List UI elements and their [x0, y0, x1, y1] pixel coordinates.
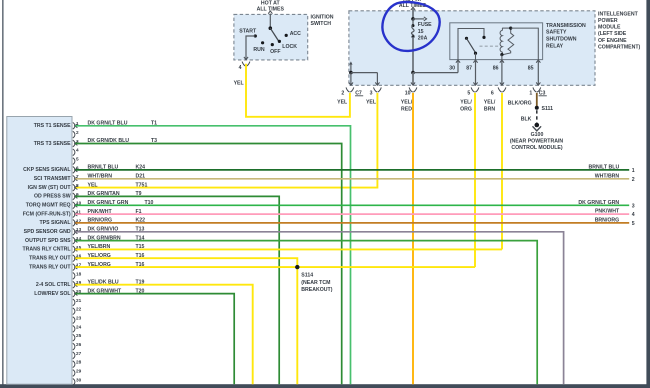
svg-text:YEL/ORG: YEL/ORG [88, 262, 111, 268]
wire T16 YEL/ORG (pin 16) [75, 256, 298, 267]
wire T20 DK GRN/WHT (pin 20) [75, 292, 235, 385]
svg-text:INTELLENGENT: INTELLENGENT [598, 11, 639, 17]
svg-text:K22: K22 [136, 218, 146, 224]
svg-text:20A: 20A [418, 36, 428, 42]
IPM pin 3 [370, 87, 382, 96]
svg-text:SWITCH: SWITCH [311, 21, 332, 27]
svg-text:YEL: YEL [88, 182, 99, 188]
svg-text:SHUTDOWN: SHUTDOWN [546, 37, 577, 43]
svg-text:T15: T15 [136, 244, 145, 250]
relay pin 86 [493, 60, 504, 85]
svg-text:LOCK: LOCK [282, 44, 297, 50]
svg-text:TRANSMISSION: TRANSMISSION [546, 23, 586, 29]
svg-text:G100: G100 [531, 132, 544, 138]
svg-text:YEL/: YEL/ [401, 100, 413, 106]
svg-text:K24: K24 [136, 165, 146, 171]
wire: coil bottom to relay pin 86 [501, 55, 503, 60]
IPM pin 5 [467, 87, 478, 96]
svg-text:LOW/REV SOL: LOW/REV SOL [34, 291, 71, 297]
contact RUN [253, 41, 264, 53]
node: pin 2 junction [349, 71, 353, 75]
svg-text:RED: RED [401, 107, 412, 113]
svg-text:YEL: YEL [337, 100, 348, 106]
relay mechanical link (dashed) [480, 45, 499, 47]
wire: battery feed into ignition switch [268, 11, 272, 28]
svg-text:START: START [239, 29, 257, 35]
wire: fuse output down [412, 37, 414, 73]
node: right exit 1 (BRN/LT BLU) [588, 164, 634, 174]
relay internal: pin 30 feed path [458, 29, 484, 60]
svg-text:BRN/ORG: BRN/ORG [595, 217, 620, 223]
svg-text:2-4 SOL CTRL: 2-4 SOL CTRL [36, 282, 72, 288]
label: DK GRN/VIO T13 [88, 227, 145, 233]
contact OFF [270, 43, 280, 55]
label: IGNITION SWITCH [311, 15, 334, 27]
wire T15 YEL/BRN (pin 15) [75, 248, 502, 252]
node: relay fixed contact [482, 36, 485, 39]
relay coil resistor (zigzag) [503, 28, 514, 54]
svg-text:FCM (OFF-RUN-ST): FCM (OFF-RUN-ST) [23, 211, 71, 217]
svg-text:ACC: ACC [290, 31, 301, 37]
IPM pin 10 [405, 87, 417, 96]
svg-text:BRN/LT BLU: BRN/LT BLU [588, 164, 619, 170]
wire: battery feed to fuse [411, 7, 415, 19]
svg-text:T751: T751 [136, 182, 148, 188]
svg-text:DK GRN/WHT: DK GRN/WHT [88, 288, 123, 294]
svg-text:WHT/BRN: WHT/BRN [595, 173, 620, 179]
svg-text:T13: T13 [136, 227, 145, 233]
svg-text:YEL/ORG: YEL/ORG [88, 253, 111, 259]
ground G100 [533, 123, 542, 131]
svg-text:DK GRN/TAN: DK GRN/TAN [88, 191, 120, 197]
label: DK GRN/DK BLU T3 [88, 138, 158, 144]
label: INTELLENGENT POWER MODULE [598, 11, 641, 50]
svg-text:HOT AT: HOT AT [261, 0, 281, 6]
svg-text:2: 2 [76, 130, 79, 135]
label: YEL T751 [88, 182, 148, 188]
svg-text:87: 87 [466, 66, 472, 72]
svg-text:TORQ MGMT REQ: TORQ MGMT REQ [26, 203, 71, 209]
wire F1 PNK/WHT (pin 11) [75, 212, 630, 216]
svg-text:DK GRN/BRN: DK GRN/BRN [88, 235, 121, 241]
wire T1 DK GRN/LT BLU (pin 1) [75, 124, 351, 384]
svg-text:5: 5 [632, 221, 635, 227]
svg-text:T16: T16 [136, 253, 145, 259]
svg-text:TRANS RLY OUT: TRANS RLY OUT [29, 256, 71, 262]
svg-text:86: 86 [493, 66, 499, 72]
wire: fuse output to IPM pin 10 [411, 73, 415, 86]
svg-text:24: 24 [76, 324, 82, 329]
label: TRANSMISSION SAFETY SHUTDOWN RELAY [546, 23, 586, 50]
wire K22 BRN/ORG (pin 12) [75, 221, 630, 225]
wire BLK/ORG: IPM pin 1 to splice S111 [536, 93, 538, 106]
contact LOCK [278, 40, 297, 50]
svg-text:TRANS RLY CNTRL: TRANS RLY CNTRL [22, 247, 71, 253]
svg-text:3: 3 [370, 91, 373, 97]
svg-text:28: 28 [76, 360, 82, 365]
svg-text:SAFETY: SAFETY [546, 30, 567, 36]
svg-text:BRN: BRN [484, 107, 495, 113]
wire YEL/BRN: IPM pin 6 to row 15 [501, 93, 503, 250]
svg-text:27: 27 [76, 351, 82, 356]
label: BRN/LT BLU K24 [88, 165, 146, 171]
svg-text:DK GRN/VIO: DK GRN/VIO [88, 227, 119, 233]
node: right exit 2 (WHT/BRN) [595, 173, 635, 183]
svg-text:(NEAR POWERTRAIN: (NEAR POWERTRAIN [510, 139, 564, 145]
svg-text:YEL/: YEL/ [484, 100, 496, 106]
svg-text:OUTPUT SPD SNS: OUTPUT SPD SNS [25, 238, 71, 244]
wire: coil top to relay pin 85 [511, 28, 539, 59]
svg-text:30: 30 [449, 66, 455, 72]
svg-text:T9: T9 [136, 191, 142, 197]
svg-text:5: 5 [467, 91, 470, 97]
wire: branch feed arrow to other circuits [413, 17, 427, 21]
svg-text:5: 5 [76, 157, 79, 162]
svg-text:DK GRN/DK BLU: DK GRN/DK BLU [88, 138, 130, 144]
svg-text:TRANS RLY OUT: TRANS RLY OUT [29, 264, 71, 270]
svg-text:SCI TRANSMIT: SCI TRANSMIT [34, 176, 72, 182]
label: YEL/ORG T16 [88, 262, 145, 268]
label: YEL/BRN T15 [88, 244, 145, 250]
svg-text:ORG: ORG [460, 107, 472, 113]
svg-text:OFF: OFF [270, 49, 280, 55]
svg-text:T1: T1 [151, 121, 157, 127]
wire: junction to pin 3 [351, 72, 378, 74]
svg-text:T14: T14 [136, 235, 145, 241]
svg-text:T20: T20 [136, 288, 145, 294]
wire: down to IPM pin 3 [375, 73, 379, 86]
svg-text:29: 29 [76, 368, 82, 373]
wire K24 BRN/LT BLU (pin 6) [75, 168, 630, 172]
svg-text:3: 3 [632, 203, 635, 209]
label: YEL/RED [401, 100, 413, 113]
svg-text:CONTROL MODULE): CONTROL MODULE) [511, 145, 562, 151]
svg-text:T3: T3 [151, 138, 157, 144]
svg-text:RELAY: RELAY [546, 44, 564, 50]
svg-text:26: 26 [76, 342, 82, 347]
fuse FUSE 15 20A [411, 19, 414, 38]
svg-text:PNK/WHT: PNK/WHT [88, 209, 113, 215]
label: YEL/DK BLU T19 [88, 279, 145, 285]
svg-text:CKP SENS SIGNAL: CKP SENS SIGNAL [23, 167, 71, 173]
svg-text:YEL: YEL [234, 81, 245, 87]
svg-text:23: 23 [76, 316, 82, 321]
svg-text:TPS SIGNAL: TPS SIGNAL [39, 220, 71, 226]
svg-text:S114: S114 [301, 273, 313, 279]
svg-text:8: 8 [76, 183, 79, 188]
node: ignition switch pivot [269, 26, 273, 30]
wire: fuse output to relay pin 30 [413, 72, 458, 74]
svg-text:21: 21 [76, 298, 82, 303]
svg-text:OD PRESS SW: OD PRESS SW [34, 194, 71, 200]
IPM pin 1 (C3) [529, 87, 546, 96]
svg-text:T16: T16 [136, 262, 145, 268]
ignition switch lever [270, 28, 278, 41]
svg-text:S111: S111 [542, 106, 554, 112]
svg-text:85: 85 [528, 66, 534, 72]
svg-text:BLK: BLK [521, 117, 532, 123]
label: DK GRN/LT GRN T10 [88, 200, 154, 206]
wire: START contact to ignition pin 4 [244, 36, 255, 60]
svg-text:BRN/ORG: BRN/ORG [88, 218, 113, 224]
svg-text:DK GRN/LT GRN: DK GRN/LT GRN [88, 200, 129, 206]
node: fuse input junction [411, 17, 415, 21]
ignition switch module box [234, 14, 308, 60]
relay pin 87 [466, 60, 477, 85]
relay coil [500, 28, 511, 54]
IPM pin 2 (C7) [341, 87, 363, 96]
label: WHT/BRN D21 [88, 174, 146, 180]
module: Intelligent Power Module box [349, 11, 595, 86]
wire T19 YEL/DK BLU (pin 19) [75, 283, 253, 384]
svg-text:15: 15 [418, 29, 424, 35]
pin 4 (ignition switch output) [239, 62, 250, 72]
label: HOT AT ALL TIMES (ignition feed) [257, 0, 285, 12]
svg-text:DK GRN/LT BLU: DK GRN/LT BLU [88, 121, 128, 127]
wire YEL/RED: IPM pin 10 down off page [412, 93, 414, 384]
svg-text:2: 2 [341, 91, 344, 97]
node: coil bottom junction [500, 53, 503, 56]
svg-text:PNK/WHT: PNK/WHT [595, 209, 620, 215]
node: fuse output junction to relay [411, 71, 415, 75]
wire T9 DK GRN/TAN (pin 9) [75, 195, 280, 385]
relay pin 30 [449, 60, 460, 73]
relay: transmission safety shutdown relay box [450, 23, 543, 60]
node: right exit 5 (BRN/ORG) [595, 217, 635, 227]
svg-text:2: 2 [632, 177, 635, 183]
label: G100 (NEAR POWERTRAIN CONTROL MODULE) [510, 132, 564, 151]
svg-text:IGN SW (ST) OUT: IGN SW (ST) OUT [28, 185, 72, 191]
wire: IPM internal feed arrow (pin 2 source) [349, 61, 352, 72]
wire T751 YEL (pin 8) [75, 186, 78, 190]
svg-text:4: 4 [239, 65, 242, 71]
label: YEL/ORG [460, 100, 472, 113]
module: TCM connector strip (left) [7, 117, 72, 385]
svg-text:10: 10 [405, 91, 411, 97]
IPM pin 6 [491, 87, 506, 96]
svg-text:F1: F1 [136, 209, 142, 215]
splice S111 [535, 106, 553, 112]
svg-text:(NEAR TCM: (NEAR TCM [301, 280, 330, 286]
wire D21 WHT/BRN (pin 7) [75, 177, 630, 181]
relay pin 85 [528, 60, 541, 85]
svg-text:IGNITION: IGNITION [311, 15, 334, 21]
svg-text:WHT/BRN: WHT/BRN [88, 174, 113, 180]
svg-text:DK GRN/LT GRN: DK GRN/LT GRN [578, 200, 619, 206]
relay switch contact (blade) [465, 37, 477, 60]
svg-text:TRS T1 SENSE: TRS T1 SENSE [34, 123, 71, 129]
node: right exit 3 (DK GRN/LT GRN) [578, 200, 634, 210]
svg-text:BLK/ORG: BLK/ORG [508, 101, 532, 107]
wire T3 DK GRN/DK BLU (pin 3) [75, 142, 342, 385]
annotation: hand-drawn blue circle around fuse [382, 2, 439, 51]
svg-text:BREAKOUT): BREAKOUT) [301, 287, 332, 293]
svg-text:YEL/: YEL/ [460, 100, 472, 106]
label: HOT AT ALL TIMES (fuse feed, clipped at top) [399, 0, 427, 9]
wire YEL T751: IPM pin 3 to TCM pin 8 [75, 93, 377, 188]
svg-text:MODULE: MODULE [598, 25, 621, 31]
svg-text:YEL: YEL [366, 100, 377, 106]
wire BLK: S111 to ground [521, 110, 537, 123]
svg-text:TRS T3 SENSE: TRS T3 SENSE [34, 141, 71, 147]
contact START [239, 29, 257, 38]
svg-text:COMPARTMENT): COMPARTMENT) [598, 44, 641, 50]
node: coil top junction [509, 27, 512, 30]
svg-text:1: 1 [632, 168, 635, 174]
TCM connector pins 1-30 (brackets) [73, 121, 82, 385]
svg-text:T10: T10 [145, 200, 154, 206]
svg-text:T19: T19 [136, 279, 145, 285]
svg-text:OF ENGINE: OF ENGINE [598, 38, 627, 44]
label: DK GRN/WHT T20 [88, 288, 145, 294]
wire: down to IPM pin 2 [349, 73, 353, 86]
label: DK GRN/LT BLU T1 [88, 121, 158, 127]
label: DK GRN/BRN T14 [88, 235, 145, 241]
svg-text:YEL/DK BLU: YEL/DK BLU [88, 279, 119, 285]
svg-text:POWER: POWER [598, 18, 618, 24]
label: YEL/BRN [484, 100, 496, 113]
label: YEL/ORG T16 [88, 253, 145, 259]
node: right exit 4 (PNK/WHT) [595, 209, 635, 219]
wire T13 DK GRN/VIO (pin 13) [75, 230, 564, 384]
svg-text:FUSE: FUSE [418, 22, 432, 28]
svg-text:6: 6 [491, 91, 494, 97]
wire: S114 down off page [296, 267, 298, 384]
svg-text:(LEFT SIDE: (LEFT SIDE [598, 31, 627, 37]
svg-text:30: 30 [76, 377, 82, 382]
svg-text:D21: D21 [136, 174, 146, 180]
wire T16 YEL/ORG (pin 17) [75, 265, 475, 269]
wire T10 DK GRN/LT GRN (pin 10) [75, 203, 630, 207]
svg-text:1: 1 [529, 91, 532, 97]
svg-text:4: 4 [632, 212, 635, 218]
splice S114 [295, 265, 333, 293]
label: PNK/WHT F1 [88, 209, 142, 215]
wire YEL: ignition pin4 to IPM pin 2 [246, 64, 350, 117]
label: BRN/ORG K22 [88, 218, 146, 224]
label: FUSE 15 20A [418, 22, 432, 41]
wire YEL/ORG: IPM pin 5 to row 17 [474, 93, 476, 267]
svg-text:YEL/BRN: YEL/BRN [88, 244, 111, 250]
svg-text:4: 4 [76, 148, 79, 153]
svg-text:SPD SENSOR GND: SPD SENSOR GND [24, 229, 71, 235]
svg-text:18: 18 [76, 271, 82, 276]
svg-text:BRN/LT BLU: BRN/LT BLU [88, 165, 119, 171]
svg-text:25: 25 [76, 333, 82, 338]
wire T14 DK GRN/BRN (pin 14) [75, 239, 538, 385]
svg-text:RUN: RUN [253, 47, 264, 53]
contact ACC [285, 31, 302, 37]
svg-text:22: 22 [76, 307, 82, 312]
label: DK GRN/TAN T9 [88, 191, 142, 197]
